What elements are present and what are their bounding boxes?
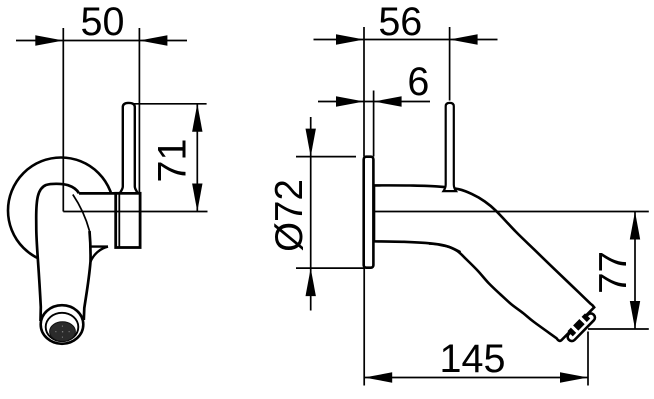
dimension D72: line (310, 117, 312, 311)
mesh highlights (55, 326, 69, 338)
dimension 145: left extension line (363, 268, 365, 386)
dimension 6: right arrow (374, 96, 402, 106)
dimension 71: top arrow (192, 104, 202, 132)
dimension 50: right arrow (139, 35, 167, 45)
dimension D72: top arrow (306, 129, 316, 157)
dimension 50: left extension line (62, 28, 64, 212)
dimension 50: line (16, 40, 187, 42)
spout arch outer edge (36, 184, 79, 218)
dimension D72: top tick (296, 156, 356, 158)
dimension 56: right arrow (450, 34, 478, 44)
spout body silhouette (white fill covering circle) (36, 184, 140, 322)
dimension 77: bottom arrow (630, 301, 640, 329)
dimension 56: line (314, 39, 498, 41)
dimension D72: bottom tick (296, 267, 364, 269)
wall plate (side) (364, 157, 374, 268)
dimension 56: left extension line (363, 27, 365, 157)
body bottom edge line (89, 245, 108, 247)
aerator recess dark strip (567, 313, 590, 336)
dimension 50: right extension line (138, 28, 140, 192)
dimension 56: right extension line (449, 27, 451, 101)
side spout silhouette (374, 185, 594, 340)
wall rosette circle (8, 158, 114, 264)
spout seam notch (429, 244, 461, 253)
aerator mesh (50, 322, 76, 342)
body top edge line (79, 192, 140, 195)
housing inner line (118, 194, 120, 246)
svg-text:56: 56 (378, 0, 422, 44)
dimension 77: bottom tick (588, 328, 649, 330)
svg-text:145: 145 (440, 337, 506, 381)
aerator ring (46, 313, 79, 341)
lever handle (front) (120, 103, 138, 193)
dimension 50: left arrow (35, 35, 63, 45)
dimension 6: left arrow (336, 96, 364, 106)
dimension 71: top tick (134, 103, 207, 105)
spout tube left edge (36, 218, 41, 321)
lever handle (side) (444, 103, 457, 191)
cartridge housing (116, 193, 140, 247)
dimension 71: bottom arrow (192, 184, 202, 212)
dimension 145: right arrow (560, 372, 588, 382)
aerator tip (side) (564, 309, 597, 342)
body bottom fillet curve (91, 247, 108, 262)
svg-text:Ø72: Ø72 (268, 179, 311, 252)
spout tube right edge (84, 231, 91, 320)
svg-text:6: 6 (407, 60, 429, 104)
centre line right view (374, 211, 649, 213)
svg-text:50: 50 (81, 0, 125, 44)
dimension 77: top arrow (630, 212, 640, 240)
dimension 56: left arrow (336, 34, 364, 44)
centre line left view (63, 211, 207, 213)
aerator outer cup (41, 305, 84, 344)
dimension 77: line (634, 212, 636, 330)
dimension 145: right extension line (587, 332, 589, 386)
spout bend inner contour (73, 195, 90, 232)
dimension 6: line (318, 101, 430, 103)
svg-text:71: 71 (151, 139, 195, 183)
dimension 145: line (364, 377, 588, 379)
aerator insert band (566, 312, 597, 343)
dimension D72: bottom arrow (306, 268, 316, 296)
dimension 71: line (196, 104, 198, 212)
svg-text:77: 77 (592, 251, 635, 294)
dimension 145: left arrow (364, 372, 392, 382)
dimension 6: right extension line (373, 91, 375, 157)
